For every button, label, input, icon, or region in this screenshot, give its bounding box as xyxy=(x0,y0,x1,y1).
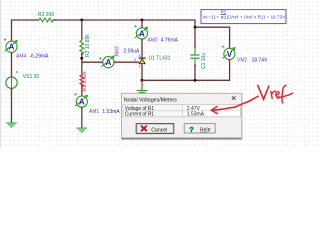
svg-text:-6.29mA: -6.29mA xyxy=(30,54,50,60)
wire top-left corner and top rail left segment xyxy=(12,20,38,41)
wire AM1 to ground xyxy=(81,108,83,128)
voltage source VS1 xyxy=(6,71,40,90)
svg-text:C1 10u: C1 10u xyxy=(201,53,207,69)
svg-text:A: A xyxy=(139,29,145,38)
node junction top of C1 xyxy=(194,26,197,29)
svg-text:Help: Help xyxy=(200,127,211,133)
svg-text:Vo = (1 +: Vo = (1 + xyxy=(203,15,220,20)
wire VS1 to ground xyxy=(11,88,13,122)
red annotation arrow xyxy=(211,96,258,110)
ammeter AM1 xyxy=(74,93,120,115)
wire AM4 to VS1 xyxy=(11,53,13,77)
ground stub (below U1) xyxy=(141,80,143,90)
svg-text:)(Vref + (Iref x R1) = 18.73V: )(Vref + (Iref x R1) = 18.73V xyxy=(227,15,286,20)
red annotation Vref xyxy=(258,85,293,103)
capacitor C1 xyxy=(190,47,206,69)
svg-text:AM3: AM3 xyxy=(114,46,120,57)
svg-text:2: 2 xyxy=(134,58,136,62)
Help button xyxy=(184,124,215,133)
ground (below U1) xyxy=(137,91,148,95)
resistor R2 xyxy=(80,34,91,57)
node junction at R2 top xyxy=(80,19,83,22)
svg-text:4.76mA: 4.76mA xyxy=(161,38,179,44)
svg-text:VM2: VM2 xyxy=(237,58,248,64)
wire AM2 to U1 cathode xyxy=(141,39,143,58)
svg-text:3: 3 xyxy=(138,54,140,58)
wire bottom rail xyxy=(142,60,230,80)
node junction bottom rail left xyxy=(141,79,144,82)
svg-text:A: A xyxy=(9,43,15,52)
svg-text:V: V xyxy=(227,50,233,59)
wire R1 to AM1 xyxy=(81,85,83,96)
TL431 U1 xyxy=(134,54,171,68)
svg-text:A: A xyxy=(79,98,85,107)
svg-text:Cancel: Cancel xyxy=(151,127,167,133)
wire from top junction down to R2 xyxy=(81,20,83,39)
wire ref rail (R2/R1 tee to AM3) xyxy=(82,61,103,63)
wire C1 top xyxy=(194,27,196,47)
node junction R2 bottom / ref tee xyxy=(80,57,83,60)
resistor R1 (selected, red) xyxy=(80,71,88,92)
svg-text:U1 TL431: U1 TL431 xyxy=(149,55,171,61)
svg-text:AM4: AM4 xyxy=(16,54,27,60)
svg-text:1.53mA: 1.53mA xyxy=(102,109,120,115)
resistor R3 xyxy=(37,12,55,22)
svg-text:Nodal Voltages/Meters: Nodal Voltages/Meters xyxy=(124,98,177,104)
svg-text:R3 200: R3 200 xyxy=(38,12,54,18)
wire R2 to R1 xyxy=(81,53,83,75)
formula annotation box xyxy=(201,10,286,24)
wire top rail right xyxy=(142,20,230,48)
svg-text:1.53mA: 1.53mA xyxy=(187,112,205,118)
wire top junction to AM2 xyxy=(141,20,143,27)
wire U1 anode down xyxy=(141,64,143,80)
Cancel button xyxy=(136,124,174,134)
svg-text:AM2: AM2 xyxy=(148,38,159,44)
dialog Nodal Voltages/Meters xyxy=(122,93,243,139)
svg-text:?: ? xyxy=(189,125,194,134)
node junction top of AM2 xyxy=(141,19,144,22)
svg-text:1: 1 xyxy=(138,65,140,69)
ground (left) xyxy=(6,123,17,127)
ammeter AM3 xyxy=(99,46,140,68)
node junction bottom of C1 xyxy=(194,79,197,82)
svg-text:18.74V: 18.74V xyxy=(252,58,269,64)
voltmeter VM2 xyxy=(222,46,268,64)
ground (below AM1) xyxy=(77,128,88,132)
ammeter AM2 xyxy=(134,25,178,44)
wire top rail mid xyxy=(54,19,142,21)
svg-text:A: A xyxy=(106,58,112,67)
svg-text:R2 10.69k: R2 10.69k xyxy=(85,34,91,57)
svg-text:AM1: AM1 xyxy=(89,109,100,115)
wire C1 bottom xyxy=(194,65,196,80)
svg-text:VS1 20: VS1 20 xyxy=(23,74,40,80)
wire AM3 to U1 ref pin xyxy=(114,61,139,63)
svg-text:Current of R1: Current of R1 xyxy=(125,112,155,118)
svg-text:R1 1.62k: R1 1.62k xyxy=(82,71,88,92)
ammeter AM4 xyxy=(4,38,49,59)
